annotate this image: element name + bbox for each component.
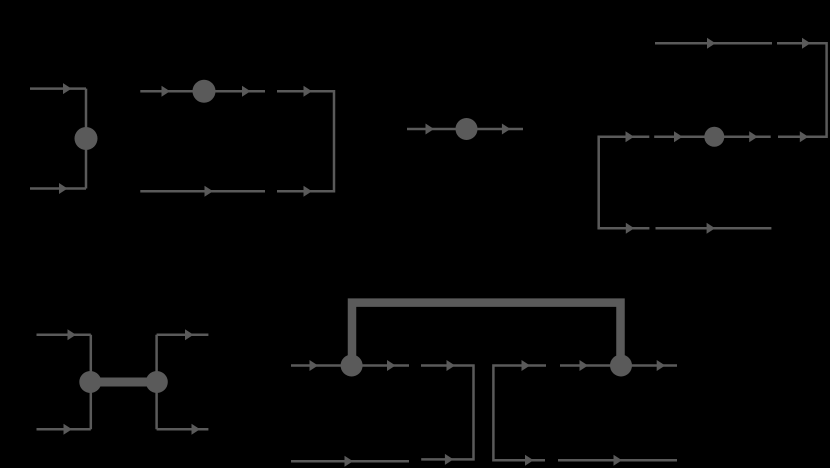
wire W4b: right diagram, top-right bracket into middle line xyxy=(777,38,827,143)
wire W3: middle diagram line with two arrows xyxy=(407,124,523,135)
node N5L: left junction dot of H diagram xyxy=(79,371,101,393)
wire W4d: right diagram, middle line with two arrows xyxy=(654,131,771,142)
wire W6b: bottom diagram, first inner bracket (opens left) xyxy=(421,360,474,465)
wire W6bridge: bottom diagram, thick top bridge between the two junction dots xyxy=(352,303,621,366)
wire W6e: bottom diagram, bottom-left line with arrow xyxy=(291,456,409,467)
wire W5v1: H diagram, left vertical xyxy=(90,335,93,430)
wire W6c: bottom diagram, second inner bracket (opens right) xyxy=(493,360,546,466)
wire W6f: bottom diagram, bottom-right line with arrow xyxy=(558,455,677,466)
node N6R: right junction dot of bottom diagram xyxy=(610,355,632,377)
wire W5v2: H diagram, right vertical xyxy=(155,335,158,430)
wire W6d: bottom diagram, main line right segment with two arrows xyxy=(560,360,677,371)
wire W1a: top-left diagram, upper incoming line with arrow xyxy=(30,83,86,94)
wire W5b: H diagram, bottom-left incoming line with arrow xyxy=(37,424,91,435)
node N6L: left junction dot of bottom diagram xyxy=(341,355,363,377)
wire W2c: second diagram, lower-left line with arrow xyxy=(140,186,265,197)
wire W5bar: H diagram, thick connector bar xyxy=(90,378,157,387)
node N3: junction dot on middle diagram line xyxy=(456,118,478,140)
wire W2b: second diagram, right bracket (top seg, vertical, bottom seg) xyxy=(277,86,334,197)
node N2: junction dot on second diagram upper line xyxy=(193,80,216,103)
wire W2a: second diagram, upper-left line with two arrows xyxy=(140,86,265,97)
wire W5c: H diagram, top-right outgoing line with arrow xyxy=(157,329,209,340)
wire W1b: top-left diagram, lower incoming line with arrow xyxy=(30,183,86,194)
node N1: junction dot on top-left diagram vertical xyxy=(75,127,98,150)
node N4: junction dot on right diagram middle line xyxy=(704,127,724,147)
wire W4e: right diagram, bottom line with arrow xyxy=(656,223,772,234)
wire W4c: right diagram, left bracket (mid seg, vertical, bottom seg) xyxy=(599,131,650,234)
wire W5d: H diagram, bottom-right outgoing line with arrow xyxy=(157,424,209,435)
wire W6a: bottom diagram, main line left segment with two arrows xyxy=(291,360,409,371)
node N5R: right junction dot of H diagram xyxy=(146,371,168,393)
wire W4a: right diagram, top line with arrow xyxy=(655,38,772,49)
wire W5a: H diagram, top-left incoming line with arrow xyxy=(37,329,91,340)
wire W1v: top-left diagram, right vertical connector xyxy=(85,89,88,189)
